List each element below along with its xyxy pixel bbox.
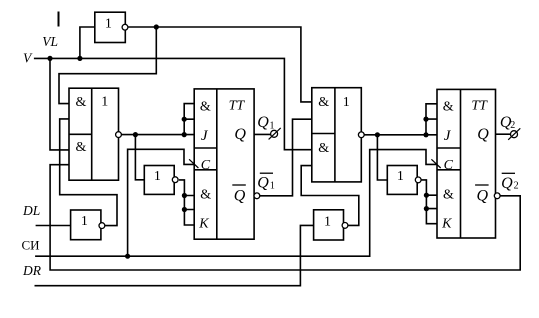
gate D2 output bubble [358,132,364,138]
junction dot out2-b [423,132,428,137]
svg-text:TT: TT [471,99,488,114]
svg-text:&: & [443,99,454,114]
svg-text:1: 1 [101,95,108,110]
label Q1bar [257,175,275,192]
svg-text:J: J [201,128,209,144]
wire NOT-DR to D2 input [301,166,359,226]
junction dot V-2 [77,56,82,61]
junction dot K1-b [182,207,187,212]
svg-text:1: 1 [324,214,331,229]
FF1 Qbar output bubble [254,193,260,199]
wire J-tie FF1 [184,104,194,135]
svg-text:K: K [441,217,452,232]
label DL [22,203,40,218]
svg-text:&: & [200,99,211,114]
junction dot out1-b [182,132,187,137]
wire V to inverter input [80,27,95,58]
svg-text:DL: DL [22,203,40,218]
svg-text:СИ: СИ [22,237,40,252]
junction dot K1-a [182,193,187,198]
junction dot K2-a [424,193,429,198]
junction dot out1-a [133,132,138,137]
junction dot K2-b [424,206,429,211]
label CLK (СИ) [22,237,40,252]
svg-text:1: 1 [397,169,404,184]
svg-text:Q: Q [234,126,246,143]
svg-text:J: J [444,128,452,144]
inverter DL [71,210,101,240]
inverter K2 [387,166,417,195]
wire to K2 inverter input [377,135,387,180]
gate block D2 (AND-OR) [312,88,362,182]
svg-text:Q: Q [477,187,489,204]
svg-text:&: & [76,140,87,155]
wire DR input line [35,225,314,285]
wire D2 output to J2 [364,134,437,136]
wire DL [36,225,71,227]
terminal Q1 [271,130,278,137]
inverter DR [314,210,344,240]
wire CLK to FF1 C [128,149,195,256]
wire K2-tie FF2 [421,180,437,224]
FF2 Qbar internal overbar [475,184,489,186]
wire NOT-V [128,27,311,102]
svg-text:&: & [200,188,211,203]
junction dot V-1 [47,56,52,61]
svg-text:1: 1 [270,181,275,192]
svg-text:&: & [318,141,329,156]
inverter U1 (top) [95,12,126,42]
wire CLK (СИ) [35,150,437,257]
wire Q1bar to D2 input [260,119,312,196]
svg-text:1: 1 [81,214,88,229]
inverter K1 [144,166,174,195]
tick mark top left [58,12,60,27]
svg-text:Q: Q [234,187,246,204]
wire J-tie FF2 [426,104,437,135]
svg-text:C: C [444,158,454,173]
svg-text:V: V [23,50,33,65]
svg-text:DR: DR [22,263,42,278]
svg-text:1: 1 [154,169,161,184]
junction dot out2-a [375,132,380,137]
wire NOT-DL to D1 input [60,119,117,226]
junction dot CLK [125,254,130,259]
svg-text:Q: Q [257,175,269,192]
svg-text:1: 1 [343,95,350,110]
junction dot NOT-V [154,24,159,29]
wire NOT-V branch to gate D1 [59,27,156,104]
svg-text:K: K [198,217,209,232]
inverter DR bubble [342,223,348,229]
svg-text:Q: Q [501,175,513,192]
flip-flop FF2 [437,89,496,238]
svg-text:1: 1 [105,17,112,32]
junction dot J-tie [182,117,187,122]
wire D1 output to J1 [121,134,194,136]
svg-text:Q: Q [257,114,269,131]
svg-text:Q: Q [477,126,489,143]
svg-text:&: & [318,95,329,110]
junction dot J2-tie [423,117,428,122]
label V [23,50,33,65]
label Q2 [500,114,515,131]
FF2 Qbar output bubble [494,193,500,199]
inverter K1 bubble [172,177,178,183]
svg-text:C: C [201,158,211,173]
FF1 C dynamic slash [189,159,198,168]
label VL [42,34,58,49]
terminal Q2 [511,131,518,138]
wire K1-tie FF1 [179,180,194,225]
inverter K2 bubble [415,177,421,183]
svg-text:1: 1 [270,120,275,131]
svg-text:2: 2 [514,181,519,192]
FF2 C dynamic slash [431,159,440,168]
svg-text:&: & [443,188,454,203]
label Q2bar [501,175,518,192]
label DR [22,263,42,278]
wire to K1 inverter input [135,135,143,180]
svg-text:VL: VL [42,34,58,49]
flip-flop FF1 [194,89,254,239]
svg-text:TT: TT [229,99,246,114]
label Q1 [257,114,274,131]
wire Q2 output [496,133,511,135]
gate D1 output bubble [116,132,122,138]
gate block D1 (AND-OR) [69,88,119,180]
wire V to AND1 input [50,58,69,149]
wire Q1 output [254,133,271,135]
svg-text:&: & [76,95,87,110]
wire V [34,58,312,149]
inverter DL bubble [99,223,105,229]
inverter U1 bubble [122,24,128,30]
FF1 Qbar internal overbar [232,184,246,186]
wire Q2bar feedback to D1 input [50,165,520,270]
svg-text:2: 2 [510,120,515,131]
